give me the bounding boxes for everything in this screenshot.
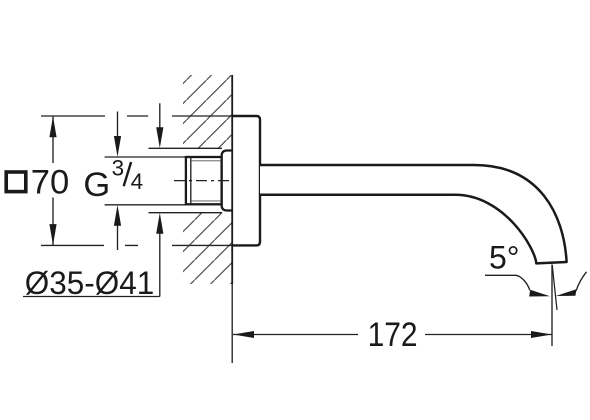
- dimension 70: arrow down: [49, 224, 56, 245]
- wall hatch upper: [183, 75, 232, 148]
- dimension 70: top extension line: [41, 115, 232, 117]
- svg-text:3: 3: [112, 155, 125, 180]
- wall hatch lower: [183, 213, 232, 284]
- svg-text:Ø35-Ø41: Ø35-Ø41: [25, 265, 155, 301]
- nipple chamfer line: [190, 158, 192, 204]
- angle 5 degrees: left arrow: [529, 290, 550, 297]
- angle 5 degrees: right arc: [576, 272, 586, 291]
- svg-text:70: 70: [31, 164, 70, 202]
- spout body: [260, 165, 567, 263]
- thread nipple G3/4: [186, 157, 222, 204]
- angle 5 degrees: tilted axis line: [552, 265, 557, 310]
- wall surface edge line over flange: [231, 75, 233, 284]
- angle 5 degrees: right arrow: [556, 289, 577, 296]
- dimension 172: right arrow: [531, 331, 552, 338]
- square symbol: [6, 172, 26, 192]
- dimension 70: dimension line: [52, 117, 54, 246]
- dimension 70: bottom extension line: [41, 244, 232, 246]
- hole line upper (Ø35): [149, 147, 223, 149]
- dimension 172: left arrow: [233, 331, 254, 338]
- wall edge extension line (172 left extension): [231, 284, 233, 363]
- thread root line lower: [191, 200, 221, 202]
- angle 5 degrees: left leader and arc: [485, 275, 530, 290]
- thread extension line upper (G3/4): [105, 156, 186, 158]
- hole line lower (Ø35): [149, 212, 223, 214]
- dimension 70: arrow up: [49, 116, 56, 137]
- centerline: [174, 180, 232, 182]
- dimension G3/4: bottom stem and arrow: [117, 222, 119, 250]
- union nut: [222, 151, 233, 211]
- dimension Ø35-Ø41: top stem and arrow: [159, 103, 161, 130]
- dimension 172: right extension line: [551, 265, 553, 347]
- flange escutcheon: [232, 116, 260, 245]
- svg-text:172: 172: [368, 316, 418, 354]
- thread root line upper: [191, 160, 221, 162]
- thread extension line lower (G3/4): [105, 204, 186, 206]
- dimension Ø35-Ø41: bottom stem, arrow and leader shelf: [159, 231, 161, 297]
- dimension G3/4: top stem and arrow: [117, 112, 119, 141]
- dimension 172: dimension line: [233, 334, 552, 336]
- svg-text:4: 4: [131, 169, 144, 194]
- svg-text:G: G: [83, 166, 110, 204]
- svg-text:5°: 5°: [489, 239, 520, 275]
- fraction slash: [124, 162, 131, 186]
